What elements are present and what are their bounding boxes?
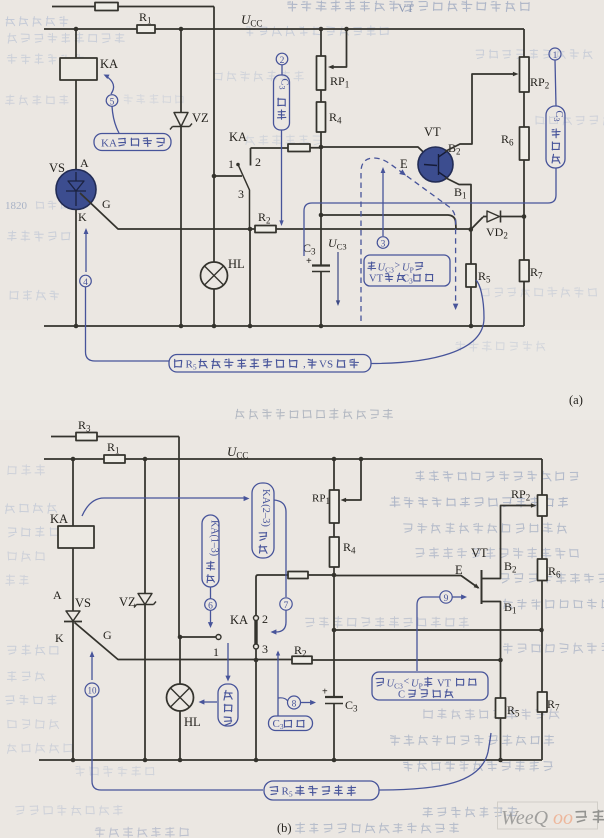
- callout box: KA(1-3) opens (vertical): [202, 515, 219, 587]
- node: contact-1 wire junction (b): [178, 635, 183, 640]
- node: VS cathode on rail (b): [71, 758, 76, 763]
- node: VZ on rail (b): [143, 758, 148, 763]
- capacitor C3 (a) polarized: [312, 264, 330, 266]
- svg-text:7: 7: [284, 601, 289, 611]
- wire: coil to VS anode (b): [72, 548, 74, 611]
- RP1 wiper wire from rail: [344, 27, 349, 32]
- callout arrow into KA coil (a): [106, 76, 114, 94]
- wire: top-feed drop to KA contact / HL branch: [213, 7, 215, 177]
- svg-text:KA(2–3): KA(2–3): [260, 489, 271, 527]
- callout box: KA(2-3) closes (vertical): [252, 483, 274, 558]
- node: VZ on rail: [179, 324, 184, 329]
- bottom rail (b): [39, 759, 542, 761]
- gate wire of VS to R2 node: [80, 193, 250, 229]
- potentiometer RP1 (a): [317, 56, 326, 90]
- wire: rail to relay coil KA: [75, 29, 77, 58]
- resistor R5 (b): [500, 660, 502, 698]
- svg-text:,: ,: [303, 358, 306, 370]
- leader circle1 to C3-precharge box: [555, 60, 556, 106]
- svg-text:(a): (a): [569, 393, 583, 407]
- wire: HL to bottom rail: [213, 289, 215, 326]
- leader and step circle 8: C3 discharge: [277, 652, 279, 716]
- thyristor VS (a) - filled blue circle: [56, 170, 96, 210]
- wire: VS cathode to bottom rail (b): [72, 622, 74, 761]
- wire: junction to HL lamp (b): [179, 637, 181, 684]
- wire: R7 to bottom rail corner (b): [541, 712, 543, 760]
- svg-text:oo: oo: [553, 807, 573, 829]
- wire: RP2 to R6: [523, 92, 525, 127]
- step circle 10 with arrow up at VS cathode: [91, 654, 93, 680]
- node: R6/R7 junction (b): [539, 628, 544, 633]
- node: RP1 top on rail: [319, 27, 324, 32]
- leader: circle4 down to pulse callout: [86, 287, 170, 361]
- node: R5 on rail: [469, 324, 474, 329]
- callout box: no trigger pulse on R5: [264, 781, 379, 800]
- transistor VT (b) unijunction symbol: [481, 570, 483, 604]
- svg-text:KA: KA: [101, 138, 117, 150]
- circuit (b) top feed wire with resistor R3: [51, 436, 179, 438]
- svg-text:KA(1–3): KA(1–3): [209, 520, 220, 556]
- wire: divider node down to C3: [320, 147, 322, 266]
- bottom rail (a): [44, 325, 524, 327]
- svg-text:VS: VS: [319, 359, 333, 371]
- svg-text:E: E: [455, 563, 463, 577]
- callout box: when Uc3 < Up VT cuts off, C stops discharging: [372, 672, 488, 700]
- svg-text:K: K: [78, 210, 87, 224]
- thyristor VS (b) symbol: [66, 611, 80, 621]
- node: R2/B1/R5 junction (b): [498, 658, 503, 663]
- wire: R5 body to bottom rail: [466, 264, 476, 287]
- svg-text:VT: VT: [437, 679, 452, 690]
- wire: divider node to VT emitter (b): [334, 576, 479, 589]
- svg-text:8: 8: [292, 699, 297, 709]
- potentiometer RP2 (a): [520, 57, 530, 92]
- resistor R1 (b): [104, 455, 125, 463]
- resistor R4 (b): [330, 537, 340, 567]
- node: gate bus at contact 3: [248, 227, 253, 232]
- transistor VT (a) unijunction - filled blue circle: [418, 147, 453, 182]
- wire: VT base-2 up to RP2 wiper: [445, 74, 516, 152]
- wire: R6 down to VD2 node: [523, 160, 525, 217]
- node: divider junction (R4/C3/emitter): [319, 145, 324, 150]
- lamp HL (a): [201, 262, 228, 289]
- circuit (a) top feed wire with resistor: [52, 6, 214, 8]
- node: C3 top tap for base-1 link: [319, 213, 324, 218]
- svg-text:2: 2: [255, 155, 261, 169]
- wire: rail to zener VZ: [180, 29, 182, 113]
- wire: VZ to bottom rail (b): [144, 605, 146, 761]
- svg-text:C: C: [398, 690, 405, 701]
- resistor R4 (a): [317, 102, 326, 132]
- step circle 4 with arrow up to K: [85, 231, 87, 272]
- wire: C3 node across to R2/B1 node: [321, 215, 456, 229]
- svg-text:VS: VS: [49, 161, 65, 175]
- node: C3 on rail (b): [332, 758, 337, 763]
- wire: VZ to bottom rail: [180, 127, 182, 327]
- svg-text:4: 4: [83, 278, 88, 288]
- svg-text:1: 1: [213, 645, 219, 659]
- zener diode VZ (a): [170, 113, 192, 130]
- capacitor C3 (b) polarized: [325, 696, 343, 698]
- svg-text:VS: VS: [75, 596, 91, 610]
- node: KA coil branch on rail (b): [71, 457, 76, 462]
- WeeQoo watermark (decorative): [498, 802, 604, 829]
- leader: pulse callout to R5: [371, 280, 484, 364]
- wire: junction to HL lamp: [213, 176, 215, 262]
- svg-text:A: A: [80, 156, 89, 170]
- step circle 9 with arrow to VT emitter: [440, 591, 452, 603]
- svg-text:3: 3: [238, 187, 244, 201]
- svg-text:HL: HL: [184, 715, 201, 729]
- wire: rail to RP1: [320, 29, 322, 56]
- RP1 wiper wire (b): [359, 457, 364, 462]
- wire: rail to RP1 (b): [333, 459, 335, 490]
- svg-text:5: 5: [110, 97, 115, 107]
- svg-text:WeeQ: WeeQ: [501, 807, 549, 829]
- callout box: KA energizes and pulls in: [94, 134, 171, 151]
- svg-text:1: 1: [553, 51, 558, 61]
- callout box: when Uc3 > Up, VT conducts and C3 discharges: [364, 255, 450, 286]
- arrow: neon callout to HL: [201, 701, 217, 703]
- wire: R2 to B1 branch (b): [312, 659, 501, 661]
- callout box: C3 charging (vertical): [274, 75, 290, 130]
- series resistor (unlabeled, b): [288, 572, 308, 579]
- wire: R4 to divider node (b): [333, 567, 335, 575]
- svg-text:K: K: [55, 631, 64, 645]
- callout box: neon lamp lights (vertical): [227, 643, 229, 679]
- svg-text:G: G: [102, 197, 111, 211]
- wire: B1 down to R5 (b): [482, 602, 501, 661]
- relay contact KA (a) terminal 2 stub: [250, 148, 252, 166]
- svg-text:10: 10: [88, 686, 98, 696]
- leader: KA coil to KA(2-3) closes callout: [82, 498, 244, 516]
- node: VZ branch on Ucc rail: [179, 27, 184, 32]
- wire: KA coil to thyristor VS anode: [75, 80, 77, 170]
- wire: C3 node across to R6/R7 junction (b): [334, 629, 542, 631]
- svg-text:A: A: [53, 588, 62, 602]
- svg-text:2: 2: [262, 612, 268, 626]
- resistor (top, unlabeled) in circuit (a): [95, 3, 118, 11]
- node: VS cathode on rail: [74, 324, 79, 329]
- resistor R2 (b): [292, 656, 312, 664]
- lamp HL (b): [167, 684, 194, 711]
- leader: circle5 to callout box: [112, 106, 119, 133]
- node: gate bus at contact 3 (b): [254, 658, 259, 663]
- wire: contact3 node to bottom rail: [249, 229, 251, 326]
- potentiometer RP1 (b): [330, 490, 340, 523]
- node: contact3 branch on rail: [248, 324, 253, 329]
- resistor R7 (a): [523, 217, 525, 261]
- node: VD2 cathode / R7 junction: [522, 214, 527, 219]
- potentiometer RP2 (b): [538, 495, 548, 516]
- wire: RP2 to R6 (b): [541, 516, 543, 559]
- node: HL on rail: [212, 324, 217, 329]
- callout box: C3 discharges: [269, 716, 313, 731]
- dashed discharge-current loop (a): [361, 158, 456, 321]
- wire: RP1 to R4 (b): [333, 523, 335, 537]
- node: R2/B1/R5 junction: [469, 227, 474, 232]
- wire: R3 feed drop to contact 1: [178, 437, 180, 638]
- wire: contact 3 to gate bus and rail (b): [255, 649, 257, 760]
- svg-text:KA: KA: [229, 130, 247, 144]
- relay contact KA (a) pole 1 and arm closed to 3: [236, 163, 240, 167]
- svg-text:+: +: [306, 256, 312, 267]
- leader: C3-charging box down to R2 wire with arrow: [281, 130, 283, 223]
- wire: rail to KA coil (b): [72, 459, 74, 526]
- svg-text:HL: HL: [228, 257, 245, 271]
- wire: junction to R7 (b): [541, 630, 543, 692]
- KA contact terminals 2-3 closed (b): [254, 616, 259, 621]
- wire: VS cathode to bottom rail: [75, 210, 77, 327]
- svg-text:KA: KA: [50, 512, 68, 526]
- svg-text:VT: VT: [471, 546, 488, 560]
- svg-text:9: 9: [444, 594, 449, 604]
- wire: C3 to bottom rail (b): [333, 704, 335, 761]
- node: HL on rail (b): [178, 758, 183, 763]
- svg-text:VT: VT: [398, 1, 415, 15]
- step circle 1: [549, 48, 561, 60]
- step circle 3 with arrow up: [382, 170, 384, 236]
- wire: R6 to junction (b): [541, 581, 543, 631]
- leader: KA(1-3) box to circle 6 with arrow at contact 1: [210, 587, 212, 599]
- leader: no-pulse callout to R5 (b): [379, 733, 491, 790]
- callout box: C3 pre-charge (vertical): [546, 106, 565, 168]
- gate wire of VS (b) to R2 bus: [75, 623, 293, 660]
- svg-text:KA: KA: [230, 613, 248, 627]
- svg-text:3: 3: [381, 239, 386, 249]
- svg-text:VT: VT: [424, 125, 441, 139]
- svg-text:VZ: VZ: [192, 111, 209, 125]
- zener diode VZ (b): [134, 594, 156, 608]
- node: contact3 on rail (b): [254, 758, 259, 763]
- wire and open terminal 1 of KA contact (b): [180, 636, 216, 638]
- step circle 7: [280, 598, 292, 610]
- wire: rail to VZ (b): [144, 459, 146, 594]
- node: C3 top tap to R6/R7 link (b): [332, 628, 337, 633]
- resistor R3 (b): [76, 433, 97, 441]
- wire from contact 2 to divider node with series resistor: [251, 147, 322, 149]
- relay coil KA (a): [60, 58, 97, 80]
- wire: VT base-1 to R5 top: [445, 178, 471, 230]
- node: contact-1/HL branch junction: [212, 174, 217, 179]
- step circle 5: [106, 95, 118, 107]
- series resistor (unlabeled, a) between contact 2 and R4 node: [288, 144, 310, 152]
- leader circle2 to C3-charging box: [281, 65, 283, 75]
- resistor R6 (b): [538, 559, 548, 581]
- wire: C3 to bottom rail: [320, 272, 322, 327]
- Ucc supply rail (a): [44, 29, 524, 57]
- svg-text:2: 2: [280, 56, 285, 66]
- svg-text:1820: 1820: [5, 200, 28, 212]
- svg-text:E: E: [400, 157, 408, 171]
- svg-text:>: >: [395, 261, 401, 272]
- wire: R4 to divider node: [320, 132, 322, 147]
- wire: divider node down to C3 (b): [333, 575, 335, 697]
- wire: HL to bottom rail (b): [179, 711, 181, 760]
- node: RP1 branch on rail (b): [332, 457, 337, 462]
- svg-text:VT: VT: [369, 274, 384, 285]
- wire: contact 2 up to divider node with series resistor (b): [256, 575, 334, 616]
- svg-text:+: +: [322, 687, 328, 698]
- node: VZ branch on rail (b): [143, 457, 148, 462]
- svg-text:(b): (b): [277, 821, 292, 835]
- RP2 wiper arrowhead: [513, 72, 519, 76]
- svg-text:<: <: [404, 677, 410, 688]
- node: Ucc to KA coil branch: [74, 27, 79, 32]
- svg-text:KA: KA: [100, 57, 118, 71]
- callout box: positive pulse on R5 turns on VS: [169, 355, 371, 373]
- resistor R1 (a): [137, 25, 155, 33]
- svg-text:VZ: VZ: [119, 595, 136, 609]
- resistor R7 (b): [538, 692, 548, 712]
- resistor R2 (a): [250, 228, 470, 230]
- relay coil KA (b): [58, 526, 94, 548]
- wire: divider node to VT emitter: [321, 147, 428, 156]
- leader: circle 10 down to no-pulse callout: [92, 697, 263, 790]
- node: C3 on rail: [319, 324, 324, 329]
- resistor R6 (a): [520, 127, 530, 160]
- leader: precharge box to C3 plus terminal: [304, 168, 556, 256]
- node: R5 on rail (b): [498, 758, 503, 763]
- Ucc supply rail (b): [44, 459, 542, 495]
- step circle 2: [276, 53, 288, 65]
- svg-text:6: 6: [208, 601, 213, 611]
- wire: B2 to RP2 wiper (b): [482, 506, 535, 579]
- wire: branch junction to contact arm: [214, 175, 242, 177]
- svg-text:3: 3: [262, 642, 268, 656]
- svg-text:G: G: [103, 628, 112, 642]
- leader: KA(2-3) box to step circle 7 and contact arrow: [274, 500, 286, 597]
- svg-text:1: 1: [228, 157, 234, 171]
- diode VD2 (a): [471, 217, 483, 230]
- node: divider junction (b): [332, 573, 337, 578]
- wire: RP1 to R4: [320, 90, 322, 102]
